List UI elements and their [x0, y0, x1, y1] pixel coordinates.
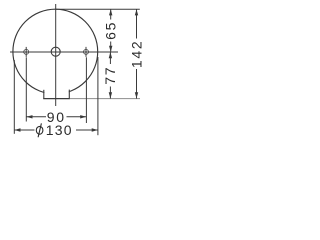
dim 77 arrow down — [109, 92, 112, 98]
center hub circle — [51, 47, 60, 56]
phi slash — [38, 123, 41, 137]
svg-text:65: 65 — [103, 21, 119, 40]
dim 142 line upper segment — [136, 9, 138, 38]
svg-text:130: 130 — [46, 122, 73, 138]
svg-text:77: 77 — [102, 66, 118, 85]
extension line phi right — [97, 57, 99, 135]
extension line phi left — [13, 60, 15, 134]
dim 90 arrow right — [80, 115, 86, 118]
dim phi130 line left segment — [14, 129, 34, 131]
dim 65 arrow up — [109, 9, 112, 15]
stem right edge — [68, 90, 70, 99]
left screw hole — [24, 49, 29, 54]
lamp body circle — [13, 9, 98, 94]
stem mask over hidden arc — [44, 89, 68, 99]
dim 142 arrow up — [135, 9, 138, 15]
extension line right hole — [85, 57, 87, 123]
dim 65 arrow down — [109, 46, 112, 52]
dim 142 line lower segment — [136, 69, 138, 99]
dim phi130 line right segment — [76, 129, 98, 131]
dim 77 line upper segment — [109, 52, 111, 64]
ceiling line — [70, 98, 140, 100]
dim phi130 arrow left — [14, 128, 20, 131]
right screw hole — [84, 49, 89, 54]
dim phi130 phi symbol loop — [36, 126, 43, 134]
stem bottom edge — [43, 98, 70, 100]
dim 90 line right segment — [67, 116, 87, 118]
dim 77 arrow up — [109, 52, 112, 58]
dim 77 line lower segment — [109, 87, 111, 99]
extension line left hole — [25, 57, 27, 121]
right screw hole tick — [85, 47, 87, 57]
vertical center line — [55, 4, 57, 106]
top tangent extension line — [56, 8, 140, 10]
dim 90 arrow left — [26, 115, 32, 118]
dim 65 line lower segment — [110, 42, 112, 53]
dim 65 line upper segment — [110, 9, 112, 19]
stem left edge — [43, 90, 45, 99]
left screw hole tick — [25, 47, 27, 57]
horizontal center line — [10, 51, 118, 53]
dim 142 arrow down — [135, 92, 138, 98]
dim 90 line left segment — [26, 116, 46, 118]
svg-text:142: 142 — [128, 40, 144, 68]
dim phi130 arrow right — [92, 128, 98, 131]
